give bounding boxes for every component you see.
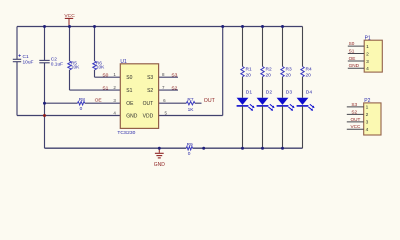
svg-text:4: 4	[113, 110, 116, 115]
svg-text:S3: S3	[171, 73, 177, 79]
svg-text:R2: R2	[266, 66, 272, 72]
svg-text:D2: D2	[266, 89, 273, 95]
svg-text:S2: S2	[351, 109, 357, 114]
svg-text:10K: 10K	[96, 65, 105, 71]
svg-text:OUT: OUT	[143, 101, 154, 107]
svg-text:1: 1	[113, 72, 116, 77]
svg-text:5: 5	[165, 110, 168, 115]
svg-text:1: 1	[366, 105, 369, 111]
svg-text:0.1uF: 0.1uF	[51, 61, 63, 67]
svg-text:TCS230: TCS230	[117, 130, 135, 136]
svg-text:D4: D4	[306, 89, 313, 95]
svg-text:8: 8	[162, 72, 165, 77]
svg-text:2: 2	[113, 85, 116, 90]
svg-text:10uF: 10uF	[23, 60, 34, 66]
svg-text:OE: OE	[95, 98, 103, 104]
svg-text:3: 3	[366, 59, 369, 65]
svg-text:0: 0	[80, 106, 83, 112]
svg-text:3: 3	[113, 98, 116, 103]
svg-text:20: 20	[246, 73, 252, 79]
svg-text:0: 0	[188, 151, 191, 157]
svg-text:3: 3	[366, 120, 369, 126]
svg-text:R4: R4	[306, 66, 312, 72]
svg-text:20: 20	[266, 73, 272, 79]
svg-text:OE: OE	[349, 56, 356, 61]
svg-text:1K: 1K	[188, 107, 195, 113]
svg-text:OE: OE	[126, 101, 134, 107]
svg-text:20: 20	[286, 73, 292, 79]
svg-text:R1: R1	[246, 66, 252, 72]
svg-text:GND: GND	[154, 162, 166, 168]
svg-text:U1: U1	[120, 59, 127, 65]
svg-text:2: 2	[366, 51, 369, 57]
svg-text:C1: C1	[23, 54, 29, 60]
svg-text:R7: R7	[187, 97, 193, 103]
svg-text:R3: R3	[286, 66, 292, 72]
svg-text:2: 2	[366, 112, 369, 118]
svg-text:4: 4	[366, 66, 369, 72]
svg-text:4: 4	[366, 127, 369, 133]
svg-text:S0: S0	[126, 75, 132, 81]
svg-text:S1: S1	[349, 48, 355, 53]
svg-text:S1: S1	[126, 88, 132, 94]
svg-text:7: 7	[162, 85, 165, 90]
svg-text:6: 6	[163, 98, 166, 103]
svg-text:S1: S1	[102, 85, 108, 91]
svg-text:S2: S2	[171, 85, 177, 91]
svg-text:S0: S0	[349, 41, 355, 46]
svg-text:D3: D3	[286, 89, 293, 95]
svg-text:GND: GND	[126, 113, 138, 119]
svg-text:10K: 10K	[71, 65, 80, 71]
svg-text:GND: GND	[349, 63, 360, 68]
svg-text:S0: S0	[102, 72, 108, 78]
svg-text:OUT: OUT	[351, 117, 361, 122]
svg-text:1: 1	[366, 44, 369, 50]
svg-text:S2: S2	[147, 88, 153, 94]
svg-text:P1: P1	[365, 35, 371, 41]
svg-text:S3: S3	[147, 75, 153, 81]
svg-text:R9: R9	[187, 142, 193, 148]
svg-text:VCC: VCC	[351, 124, 362, 129]
svg-text:D1: D1	[246, 89, 253, 95]
svg-text:R8: R8	[79, 97, 85, 103]
svg-text:P2: P2	[364, 98, 370, 104]
svg-text:OUT: OUT	[204, 98, 216, 104]
svg-text:S3: S3	[351, 102, 357, 107]
svg-text:VDD: VDD	[143, 113, 154, 119]
svg-text:20: 20	[306, 73, 312, 79]
